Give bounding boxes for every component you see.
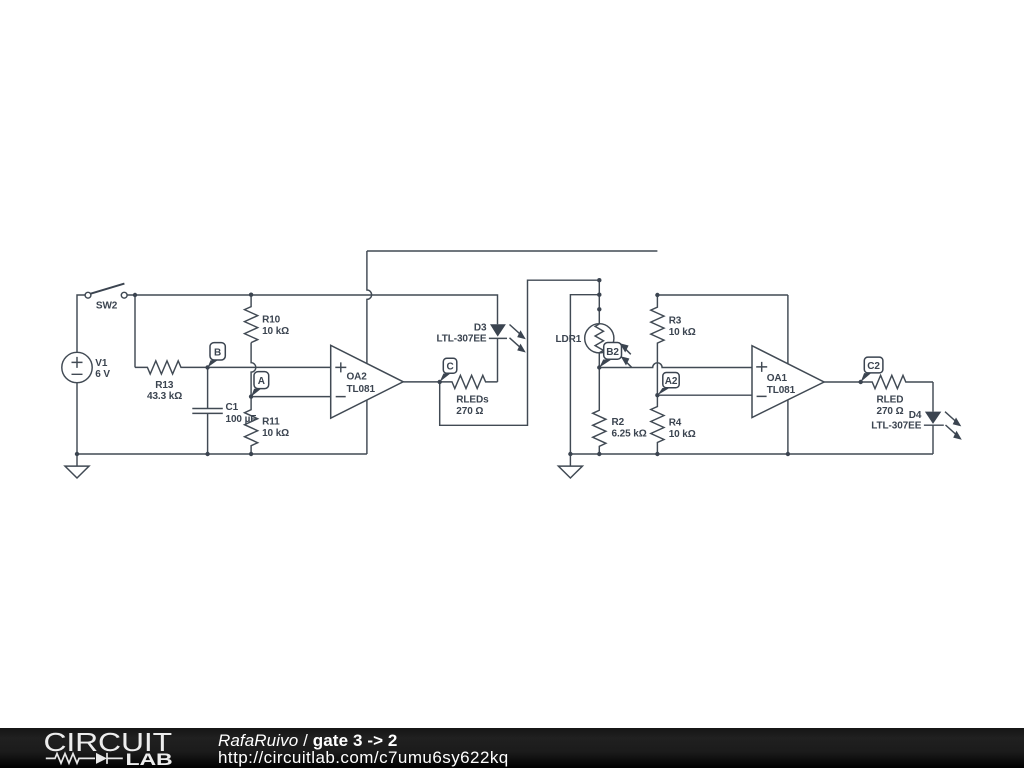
wire RLED to D4 [932,382,934,412]
svg-text:R3: R3 [669,315,682,326]
svg-text:43.3 kΩ: 43.3 kΩ [147,391,182,402]
ground left [65,454,89,478]
svg-text:RLED: RLED [877,394,904,405]
wire LDR top stub [598,309,600,323]
resistor R4 [651,395,696,454]
wire R10 hop over B wire down to node A [251,343,256,397]
node A label [251,372,269,397]
title text [218,731,398,751]
wire OA2 output [403,381,440,383]
svg-text:OA2: OA2 [347,372,368,383]
node C label [440,358,457,382]
wire node B2 to OA1 plus with hop [599,363,752,368]
svg-text:LDR1: LDR1 [555,334,581,345]
wire bottom right ground rail [570,453,933,455]
svg-text:OA1: OA1 [767,373,788,384]
wire V1 bottom lead [76,383,78,454]
svg-text:TL081: TL081 [767,385,796,396]
svg-text:C1: C1 [226,402,239,413]
ground right [558,454,582,478]
wire node B to OA2 plus input [208,366,331,368]
wire left ground rail [77,453,367,455]
resistor RLEDs [440,375,498,417]
svg-text:V1: V1 [95,358,108,369]
wire D3 cathode to RLEDs [497,338,499,382]
svg-text:LTL-307EE: LTL-307EE [436,334,486,345]
node A2 label [657,373,679,396]
svg-text:LTL-307EE: LTL-307EE [871,420,921,431]
wire switch to main rail [127,295,497,324]
wire LDR bottom stub [598,353,600,368]
capacitor C1 [192,367,256,454]
svg-text:TL081: TL081 [347,384,376,395]
photoresistor LDR1 [555,324,613,353]
wire ground tap to LDR node [570,295,599,454]
svg-text:10 kΩ: 10 kΩ [669,429,696,440]
wire D4 cathode to ground rail [932,425,934,454]
svg-text:SW2: SW2 [96,301,118,312]
wire OA2 feedback vertical with hop [367,251,372,454]
svg-text:270 Ω: 270 Ω [456,406,483,417]
svg-text:R2: R2 [612,417,625,428]
svg-text:A: A [258,376,265,387]
svg-text:270 Ω: 270 Ω [877,406,904,417]
svg-text:R11: R11 [262,417,280,428]
wire node A to OA2 minus input [251,396,331,398]
svg-text:10 kΩ: 10 kΩ [669,327,696,338]
svg-text:D3: D3 [474,322,487,333]
resistor R10 [245,295,290,343]
wire right rail to OA1 loop corner [657,294,788,296]
resistor R13 [135,361,208,402]
wire OA2 output loop down [440,280,600,425]
wire V1 top to switch [77,295,85,352]
op-amp OA1 [752,346,824,418]
svg-text:C: C [446,362,453,373]
resistor R2 [593,368,647,455]
wire OA1 feedback vertical [787,295,789,454]
CircuitLab logo [0,728,210,768]
svg-text:R13: R13 [155,380,174,391]
resistor R11 [245,397,290,454]
wire node A2 to OA1 minus [657,394,752,396]
wire top feedback rail [367,250,658,252]
svg-text:6 V: 6 V [95,369,110,380]
node B2 label [599,343,621,368]
svg-text:R10: R10 [262,314,281,325]
LED D3 [436,322,525,352]
wire LDR column top [598,280,600,309]
svg-text:A2: A2 [665,376,678,387]
LED D4 [871,410,962,440]
svg-text:10 kΩ: 10 kΩ [262,428,289,439]
svg-text:LAB: LAB [126,751,173,768]
svg-text:10 kΩ: 10 kΩ [262,326,289,337]
switch SW2 [85,284,127,312]
node B label [208,343,226,368]
node C2 label [861,357,883,382]
resistor RLED [861,375,933,416]
wire OA1 output [824,381,861,383]
svg-text:RLEDs: RLEDs [456,395,489,406]
op-amp OA2 [331,345,404,418]
svg-text:6.25 kΩ: 6.25 kΩ [612,428,647,439]
footer bar [0,728,1024,768]
junction dots [75,278,863,456]
wire branch down to R13 [134,295,136,367]
svg-text:B: B [214,347,221,358]
resistor R3 [651,295,696,395]
svg-text:R4: R4 [669,417,682,428]
photoresistor LDR1 light arrows [620,343,632,367]
svg-text:C2: C2 [867,361,880,372]
voltage source V1 [62,352,111,382]
svg-text:B2: B2 [606,347,619,358]
